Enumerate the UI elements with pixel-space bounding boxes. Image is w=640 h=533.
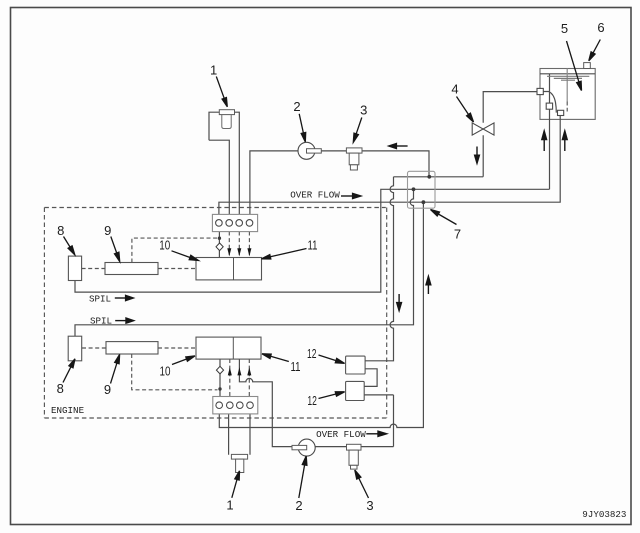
flow arrow down mid x399: [398, 294, 400, 303]
priming pump 2 bottom circle: [298, 439, 315, 456]
injection nozzle 1 bottom tip: [236, 459, 244, 472]
leader 5: [567, 41, 579, 82]
overflow fitting 12 lower: [346, 381, 365, 400]
flow arrow spill lower: [115, 320, 126, 322]
wire: upper spill loop to node dot2: [75, 189, 414, 292]
wire: overflow line top y202 from manifold to tank suction right pipe: [219, 116, 560, 215]
leader 10 upper: [172, 251, 191, 258]
fuel filter 3 top: [346, 148, 362, 170]
svg-text:11: 11: [308, 237, 318, 252]
svg-text:9: 9: [104, 223, 111, 238]
svg-text:1: 1: [210, 62, 217, 77]
injection pump block 10/11 upper: [196, 258, 262, 280]
node upper metering junction: [218, 237, 221, 240]
node dot2 spill junction: [412, 187, 416, 191]
leader 12 lower: [319, 394, 336, 399]
wire: lower metering line with diamond: [219, 359, 221, 397]
tank top inner rail: [540, 73, 595, 75]
wire: lower fitting 12 outlet down to pump suction line: [364, 395, 394, 447]
flow arrow up mid x428: [427, 284, 429, 294]
flow arrow overflow bottom: [366, 433, 378, 435]
tank suction bend pipe: [543, 92, 556, 113]
tank filler tube dashed: [566, 102, 568, 112]
svg-text:2: 2: [295, 498, 302, 513]
svg-text:5: 5: [561, 21, 568, 36]
svg-text:11: 11: [291, 359, 301, 374]
ENGINE dashed boundary box: [44, 208, 386, 419]
leader 4: [457, 97, 469, 115]
flow arrow down beside valve: [476, 147, 478, 156]
svg-text:10: 10: [159, 237, 170, 252]
priming pump 2 bottom inlet stub: [292, 445, 307, 449]
dashed feed arrowheads upper pointing down: [227, 248, 251, 375]
wire: lower overflow line y427 from manifold to node dot3 riser: [219, 202, 423, 427]
svg-text:9JY03823: 9JY03823: [582, 509, 626, 520]
leader 3 bottom: [359, 478, 369, 498]
tank filler neck divider: [566, 69, 568, 102]
wire: injection nozzle 1 top feed pipes down to manifold: [209, 112, 239, 214]
leader 9 upper: [111, 237, 117, 254]
flow arrow spill upper: [115, 297, 126, 299]
wire: tank return pipe to node dot2 and lower spill loop: [75, 74, 550, 336]
node dot1 valve line junction: [427, 175, 431, 179]
injection pump block 10/11 lower: [196, 337, 261, 359]
leader 8 lower: [63, 367, 71, 383]
wire: node dot1 to shut-off valve 4 and tank left port: [394, 92, 538, 177]
leader 2 bottom: [299, 465, 305, 498]
leader 9 lower: [111, 363, 117, 383]
reference number labels: [57, 20, 605, 513]
svg-text:2: 2: [293, 99, 300, 114]
svg-text:1: 1: [226, 497, 233, 512]
flow arrow up below tank left: [543, 139, 545, 151]
leader 11 lower: [271, 356, 289, 361]
node dot3 overflow junction: [422, 200, 426, 204]
feed manifold upper: [212, 214, 257, 231]
svg-text:12: 12: [307, 393, 317, 408]
svg-text:3: 3: [360, 103, 367, 118]
svg-text:ENGINE: ENGINE: [51, 405, 85, 416]
orifice diamond lower: [216, 366, 223, 374]
svg-text:12: 12: [307, 346, 317, 361]
priming pump 2 top outlet stub: [307, 149, 322, 153]
leader 8 upper: [64, 237, 71, 248]
tank strainer fitting mid: [546, 103, 552, 109]
regulator 8 lower: [68, 336, 82, 361]
junction block 7 outline: [408, 171, 436, 208]
label leader arrows: [63, 40, 600, 499]
svg-text:4: 4: [451, 82, 458, 97]
injection nozzle 1 top cup: [222, 115, 231, 129]
leader 6: [593, 40, 600, 53]
wire dashed: pump 9 to injection pump 10 lower: [158, 347, 196, 349]
wire: upper metering line with diamond: [218, 232, 220, 258]
fuel level marks: [547, 76, 589, 80]
svg-text:9: 9: [104, 382, 111, 397]
leader 10 lower: [172, 359, 187, 365]
dashed feed arrowheads lower pointing up: [228, 367, 232, 375]
leader 12 upper: [319, 355, 337, 361]
node lower metering junction: [218, 387, 221, 390]
wire dashed: regulator 8 to pump 9 lower: [82, 347, 106, 349]
wire: lower pump suction line to block feed with jump: [239, 359, 393, 447]
regulator 8 upper: [68, 256, 81, 280]
wire dashed: pump 9 to injection pump 10 upper: [158, 268, 196, 270]
svg-text:8: 8: [57, 381, 64, 396]
dashed feed lines block to manifold lower: [229, 359, 231, 397]
svg-text:OVER FLOW: OVER FLOW: [290, 189, 340, 200]
flow arrow up below tank right: [564, 139, 566, 151]
svg-text:3: 3: [366, 498, 373, 513]
orifice diamond upper: [216, 243, 223, 251]
feed manifold lower: [213, 397, 258, 414]
wire dashed: pump 9 bottom riser lower: [132, 354, 218, 390]
dashed pilot lines upper engine section: [82, 102, 568, 397]
leader 11 upper: [270, 249, 306, 257]
feed pump 9 upper: [105, 263, 158, 275]
wire: priming pump 2 top line from manifold riser to corner right: [250, 151, 429, 215]
feed pump 9 lower: [106, 342, 158, 354]
wire dashed: pump 9 top riser upper: [132, 238, 217, 262]
fuel filter 3 bottom: [347, 444, 362, 469]
injection nozzle 1 top cap: [219, 110, 234, 115]
dashed feed lines manifold to block upper: [228, 232, 230, 258]
svg-text:7: 7: [454, 227, 461, 242]
solid piping: [75, 69, 595, 455]
fuel tank 5 body: [540, 69, 595, 120]
svg-text:6: 6: [597, 20, 604, 35]
leader 3 top: [356, 118, 362, 134]
svg-text:OVER FLOW: OVER FLOW: [316, 429, 366, 440]
leader 1 bottom: [232, 479, 237, 497]
word labels: [51, 189, 626, 520]
leader 2 top: [299, 114, 303, 133]
tank port fitting left: [537, 88, 543, 94]
leader 1 top: [216, 77, 224, 99]
injection nozzle 1 bottom cap: [231, 454, 247, 459]
wire dashed: regulator 8 to pump 9 upper: [82, 268, 105, 270]
shut-off valve 4 bowtie: [472, 123, 494, 135]
wire: lower injection nozzle feed pipes: [229, 414, 250, 455]
wire: link between overflow fittings 12: [364, 369, 377, 387]
svg-text:SPIL: SPIL: [89, 293, 111, 304]
flow arrow return left near filter: [396, 145, 408, 147]
flow arrows: [115, 131, 567, 437]
svg-text:SPIL: SPIL: [90, 316, 112, 327]
tank strainer fitting right: [558, 110, 564, 115]
priming pump 2 top circle: [298, 142, 315, 159]
wire: main return line x393 with crossovers: [365, 177, 394, 361]
flow arrow overflow top: [341, 195, 353, 197]
tank breather cap 6: [584, 63, 591, 69]
svg-text:10: 10: [160, 364, 171, 379]
overflow fitting 12 upper: [346, 356, 366, 374]
leader 7: [438, 214, 456, 225]
svg-text:8: 8: [57, 223, 64, 238]
